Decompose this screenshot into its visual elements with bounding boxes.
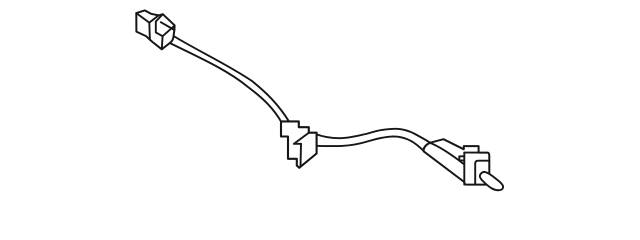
right connector: foot tab on head left edge	[459, 156, 464, 160]
right connector: ridge line	[430, 143, 464, 164]
left connector: front vertical edge at M	[148, 23, 151, 40]
left connector: top face inner diagonal	[161, 22, 175, 30]
wire: cable 2 bottom edge	[315, 136, 425, 151]
left connector: top face edge M-R	[149, 15, 158, 22]
right connector: head left edge	[463, 153, 465, 185]
right connector: head top edge under tab	[464, 152, 478, 154]
left connector: front corner edge	[163, 26, 175, 36]
right connector: body + head silhouette	[424, 139, 490, 184]
wire: cable 2 top edge (middle clip to right connector)	[315, 129, 431, 143]
left connector: ridge from peak B1 down the front-left	[156, 14, 163, 49]
middle clip: ridge diagonal	[294, 133, 309, 144]
middle clip: outer silhouette	[281, 121, 317, 167]
middle clip: inner vertical edge	[300, 144, 303, 167]
right connector: inner panel edge	[475, 161, 489, 185]
left connector U-plug: outer silhouette	[136, 10, 174, 49]
wire: cable 1 top edge (left connector to middle clip)	[172, 35, 290, 122]
middle clip: inner horizontal edge	[294, 143, 301, 145]
wire: cable 1 bottom edge	[170, 43, 282, 122]
right connector: pin (capsule)	[480, 172, 503, 190]
left connector: top face edge L-M	[136, 13, 149, 23]
